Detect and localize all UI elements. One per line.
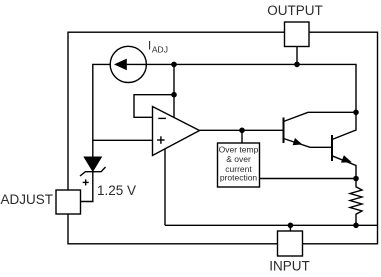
svg-text:ADJ: ADJ [152,44,168,54]
node: INPUT pad junction [288,223,294,229]
label INPUT [269,258,310,273]
wire: IADJ output rail from current source to Q1 collector node [146,64,356,112]
label OUTPUT [267,3,323,18]
transistor Q1 [284,112,357,147]
current source IADJ [110,46,146,82]
op-amp error amplifier U1 [153,107,200,156]
IC boundary box [68,32,378,244]
wire: reference to ADJUST pad [81,172,93,202]
wire: protection block output to emitter node [260,178,357,180]
wire: op-amp output to Q1 base [200,129,284,131]
wire: bottom input rail [165,224,378,226]
label 1.25 V [97,183,136,198]
label ADJUST [1,192,54,207]
wire: non-inverting input feed [93,139,153,141]
pad ADJUST [56,190,81,214]
wire: feedback drop from rail [173,64,175,94]
wire: stub to protection block [241,130,243,143]
resistor R1 [350,179,362,226]
svg-text:& over: & over [226,154,251,164]
zener diode 1.25V bandgap reference [80,157,106,176]
wire: feedback loop to inverting input [134,95,174,118]
transistor Q2 [332,112,356,178]
node: op-amp output junction [239,128,245,134]
wire: feedback drop to op-amp top edge [173,95,175,118]
svg-text:I: I [148,40,151,52]
node: feedback corner junction [171,92,177,98]
node: resistor bottom junction [353,223,359,229]
svg-text:ADJUST: ADJUST [1,192,54,207]
svg-text:Over temp: Over temp [219,144,259,154]
svg-text:INPUT: INPUT [269,258,310,273]
pad INPUT [278,231,303,256]
wire: current source left lead down to reference [93,64,110,157]
svg-text:protection: protection [220,173,258,183]
node: rail to OUTPUT pad junction [294,62,300,68]
label plus polarity [83,179,89,185]
wire: INPUT pad stub [289,225,291,231]
pad OUTPUT [285,22,310,47]
protection block: over temp and over current [218,143,260,187]
label IADJ [148,40,168,54]
svg-text:1.25 V: 1.25 V [97,183,136,198]
svg-text:OUTPUT: OUTPUT [267,3,323,18]
wire: OUTPUT pad stub down to rail [296,47,298,65]
node: emitter/resistor junction [353,176,359,182]
wire: op-amp lower supply drop [164,149,166,225]
node: rail to feedback junction [171,62,177,68]
node: collector junction [353,110,359,116]
